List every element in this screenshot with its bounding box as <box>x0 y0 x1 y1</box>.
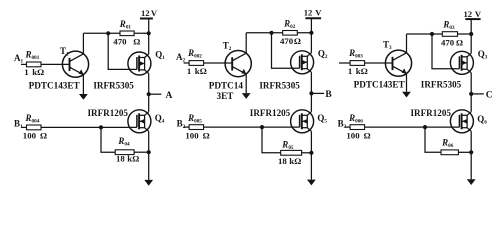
wire R06 to source rail <box>458 151 471 153</box>
wire gate feed to Q2 <box>272 33 300 68</box>
wire R002 to base of T2 <box>204 62 233 64</box>
node junction 12V rail block 1 <box>147 31 151 35</box>
wire input A2 to R002 <box>184 62 190 64</box>
svg-text:100Ω: 100Ω <box>346 130 370 140</box>
ground emitter T3 <box>402 92 411 98</box>
svg-text:A: A <box>166 91 173 101</box>
svg-text:IRFR1205: IRFR1205 <box>411 108 452 118</box>
svg-text:C: C <box>486 91 493 101</box>
node junction source rail block 1 <box>147 150 151 154</box>
wire Q2 drain to node B <box>310 72 312 93</box>
svg-text:12V: 12V <box>141 8 158 18</box>
wire Q4 source down <box>148 131 150 180</box>
svg-text:470Ω: 470Ω <box>441 37 463 47</box>
wire 12V rail to Q2 source <box>310 33 312 53</box>
node input B1 <box>14 119 23 131</box>
svg-text:18kΩ: 18kΩ <box>278 156 301 166</box>
mosfet Q5 IRFR1205 N-channel <box>291 110 328 133</box>
ground source rail block 3 <box>467 179 476 185</box>
power +12V supply V3 <box>464 9 482 34</box>
node input A2 <box>176 52 186 64</box>
svg-text:3ET: 3ET <box>217 91 234 101</box>
mosfet Q6 IRFR1205 N-channel <box>450 110 487 133</box>
wire Q3 drain to node C <box>470 73 472 94</box>
wire input A1 to R001 <box>21 63 27 65</box>
transistor T2 PDTC14 NPN <box>223 41 252 77</box>
svg-text:IRFR5305: IRFR5305 <box>421 80 462 90</box>
wire 12V rail to Q1 source <box>148 33 150 54</box>
node junction gate Q4 <box>99 125 103 129</box>
mosfet Q2 IRFR5305 P-channel <box>291 48 328 74</box>
ground source rail block 1 <box>144 180 153 186</box>
svg-text:1kΩ: 1kΩ <box>348 66 368 76</box>
wire node B to Q5 drain <box>310 93 312 111</box>
svg-text:1kΩ: 1kΩ <box>187 66 207 76</box>
wire collector T1 up <box>82 33 84 54</box>
ground source rail block 2 <box>307 180 316 186</box>
label PDTC143ET <box>29 80 80 90</box>
svg-text:1kΩ: 1kΩ <box>24 67 44 77</box>
wire emitter T1 down <box>82 75 84 94</box>
node A output <box>147 91 173 101</box>
label IRFR1205 block 2 <box>250 108 291 118</box>
wire gate branch down block 1 <box>101 127 115 152</box>
wire input A3 to R003 <box>339 62 350 64</box>
wire B1 to R004 <box>21 126 27 128</box>
label PDTC143ET <box>354 80 405 90</box>
wire collector-of-T3 to 12V rail <box>407 33 472 35</box>
svg-text:18kΩ: 18kΩ <box>116 153 139 163</box>
ground emitter T1 <box>79 94 88 100</box>
label IRFR1205 block 1 <box>88 108 129 118</box>
resistor R005 100 ohm <box>185 113 209 140</box>
wire collector T3 up <box>406 34 408 53</box>
node input B2 <box>177 119 186 131</box>
node junction 12V rail block 2 <box>309 31 313 35</box>
resistor R001 1 kohm <box>24 49 44 77</box>
wire emitter T3 down <box>406 74 408 92</box>
mosfet Q3 IRFR5305 P-channel <box>450 49 487 75</box>
wire collector T2 up <box>245 33 247 53</box>
node input B3 <box>338 119 347 131</box>
node junction source rail block 2 <box>309 151 313 155</box>
svg-text:B: B <box>325 90 332 100</box>
wire gate feed to Q1 <box>108 33 137 69</box>
node C output <box>469 91 493 101</box>
svg-text:IRFR5305: IRFR5305 <box>93 80 134 90</box>
power +12V supply V1 <box>140 8 158 33</box>
resistor R05 gate-source <box>278 139 302 166</box>
transistor T1 PDTC143ET NPN <box>60 46 89 77</box>
mosfet Q1 IRFR5305 P-channel <box>128 50 165 76</box>
wire Q6 source down <box>470 131 472 179</box>
node B output <box>309 90 332 100</box>
resistor R03 470 ohm <box>441 20 463 48</box>
wire R04 to source rail <box>134 151 149 153</box>
svg-text:IRFR1205: IRFR1205 <box>250 108 291 118</box>
node junction source rail block 3 <box>469 150 473 154</box>
resistor R004 100 ohm <box>23 113 47 140</box>
node junction 12V rail block 3 <box>469 32 473 36</box>
label IRFR1205 block 3 <box>411 108 452 118</box>
wire B2 to R005 <box>184 126 190 128</box>
wire Q5 source down <box>310 131 312 179</box>
resistor R006 100 ohm <box>346 113 370 140</box>
node junction gate Q6 <box>423 125 427 129</box>
resistor R002 1 kohm <box>187 48 207 76</box>
svg-text:IRFR1205: IRFR1205 <box>88 108 129 118</box>
svg-text:470Ω: 470Ω <box>280 36 301 46</box>
wire R003 to base of T3 <box>365 62 393 64</box>
wire gate feed to Q3 <box>432 34 459 69</box>
svg-text:100Ω: 100Ω <box>185 130 209 140</box>
svg-text:PDTC14: PDTC14 <box>209 81 244 91</box>
wire R005 to gate of Q5 <box>204 126 300 128</box>
node junction gate-feed top block 2 <box>269 31 273 35</box>
label PDTC14 <box>209 81 244 101</box>
svg-text:PDTC143ET: PDTC143ET <box>354 80 405 90</box>
wire gate branch down block 3 <box>425 127 441 152</box>
mosfet Q4 IRFR1205 N-channel <box>128 110 165 133</box>
resistor R06 gate-source <box>441 138 458 155</box>
label IRFR5305 block 3 <box>421 80 462 90</box>
svg-text:PDTC143ET: PDTC143ET <box>29 80 80 90</box>
wire gate branch down block 2 <box>262 127 281 153</box>
wire collector-of-T1 to 12V rail <box>83 32 148 34</box>
ground emitter T2 <box>242 93 251 99</box>
node junction gate-feed top block 1 <box>106 31 110 35</box>
wire R05 to source rail <box>302 152 312 154</box>
wire 12V rail to Q3 source <box>470 34 472 53</box>
wire R006 to gate of Q6 <box>365 126 460 128</box>
label IRFR5305 block 2 <box>259 81 300 91</box>
resistor R01 470 ohm <box>113 19 140 47</box>
wire emitter T2 down <box>245 74 247 93</box>
resistor R02 470 ohm <box>280 18 301 46</box>
wire node A to Q4 drain <box>148 94 150 112</box>
node input A1 <box>14 53 24 64</box>
svg-text:IRFR5305: IRFR5305 <box>259 81 300 91</box>
wire R001 to base of T1 <box>41 63 70 65</box>
resistor R003 1 kohm <box>348 48 368 76</box>
node junction gate Q5 <box>260 125 264 129</box>
resistor R04 gate-source <box>115 136 139 163</box>
transistor T3 PDTC143ET NPN <box>383 40 412 77</box>
wire collector-of-T2 to 12V rail <box>246 32 311 34</box>
svg-text:100Ω: 100Ω <box>23 130 47 140</box>
wire B3 to R006 <box>345 126 351 128</box>
node junction gate-feed top block 3 <box>430 32 434 36</box>
wire Q1 drain to node A <box>148 74 150 95</box>
wire R004 to gate of Q4 <box>41 126 137 128</box>
wire node C to Q6 drain <box>470 94 472 112</box>
power +12V supply V2 <box>304 8 323 33</box>
label IRFR5305 block 1 <box>93 80 134 90</box>
